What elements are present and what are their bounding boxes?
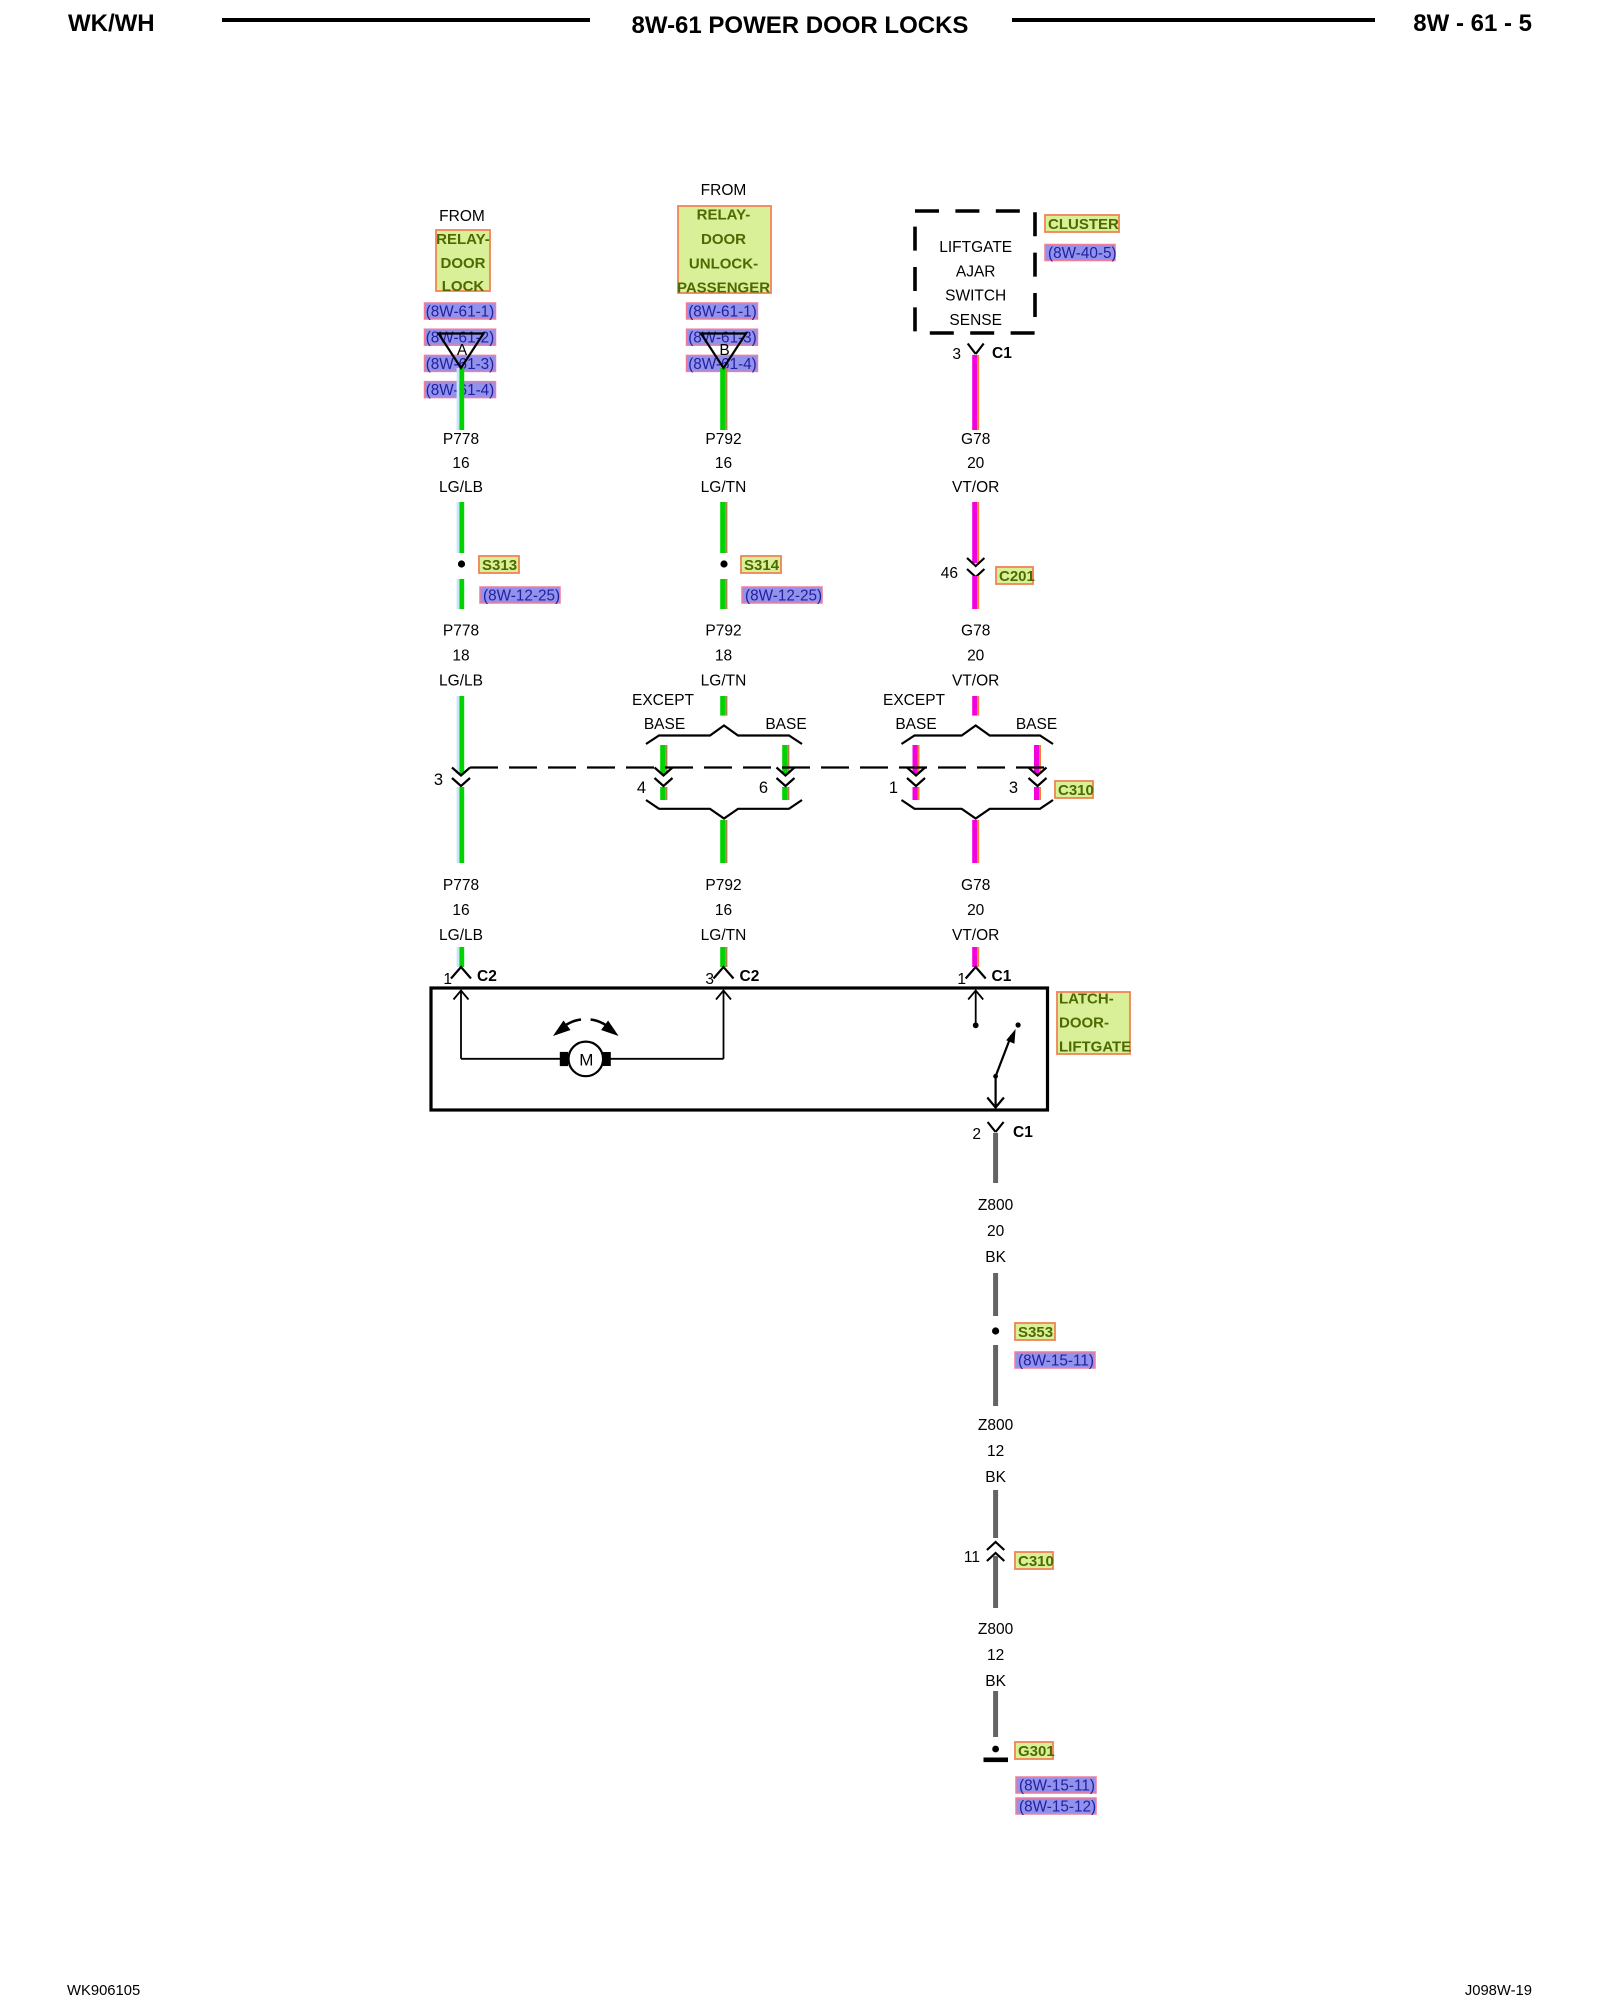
svg-text:46: 46	[941, 565, 958, 582]
svg-text:A: A	[457, 342, 468, 359]
svg-text:VT/OR: VT/OR	[952, 673, 999, 690]
svg-text:LG/TN: LG/TN	[701, 673, 747, 690]
svg-text:CLUSTER: CLUSTER	[1048, 216, 1119, 233]
svg-text:S353: S353	[1018, 1324, 1053, 1341]
svg-text:1: 1	[443, 971, 452, 988]
svg-text:EXCEPT: EXCEPT	[632, 692, 695, 709]
svg-text:M: M	[579, 1050, 593, 1069]
svg-text:C201: C201	[999, 568, 1035, 585]
svg-text:BASE: BASE	[765, 716, 806, 733]
svg-text:11: 11	[964, 1549, 980, 1566]
svg-text:20: 20	[987, 1223, 1005, 1240]
svg-text:LIFTGATE: LIFTGATE	[1059, 1039, 1131, 1056]
svg-text:LG/LB: LG/LB	[439, 673, 483, 690]
svg-text:B: B	[719, 342, 729, 359]
svg-text:(8W-15-11): (8W-15-11)	[1019, 1778, 1095, 1795]
svg-text:6: 6	[759, 779, 768, 797]
svg-text:16: 16	[452, 455, 469, 472]
svg-text:16: 16	[715, 455, 732, 472]
svg-text:16: 16	[715, 902, 732, 919]
svg-text:1: 1	[957, 971, 966, 988]
svg-text:LG/LB: LG/LB	[439, 479, 483, 496]
svg-text:Z800: Z800	[978, 1417, 1014, 1434]
svg-text:(8W-12-25): (8W-12-25)	[483, 588, 560, 605]
svg-text:C1: C1	[992, 968, 1012, 985]
svg-text:AJAR: AJAR	[956, 264, 996, 281]
svg-text:(8W-12-25): (8W-12-25)	[745, 588, 822, 605]
svg-text:S313: S313	[482, 557, 517, 574]
svg-text:C310: C310	[1058, 782, 1094, 799]
svg-text:LOCK: LOCK	[442, 278, 485, 295]
svg-text:Z800: Z800	[978, 1197, 1014, 1214]
svg-text:G78: G78	[961, 877, 990, 894]
svg-text:3: 3	[952, 346, 961, 363]
svg-text:8W-61 POWER DOOR LOCKS: 8W-61 POWER DOOR LOCKS	[632, 12, 969, 39]
svg-text:G78: G78	[961, 431, 990, 448]
svg-text:12: 12	[987, 1647, 1004, 1664]
svg-text:C1: C1	[992, 345, 1012, 362]
svg-text:P778: P778	[443, 877, 479, 894]
svg-text:18: 18	[715, 648, 732, 665]
svg-text:G78: G78	[961, 623, 990, 640]
svg-text:20: 20	[967, 902, 985, 919]
svg-text:EXCEPT: EXCEPT	[883, 692, 946, 709]
svg-text:2: 2	[972, 1126, 981, 1143]
svg-text:(8W-40-5): (8W-40-5)	[1048, 245, 1117, 262]
svg-text:P778: P778	[443, 431, 479, 448]
svg-text:VT/OR: VT/OR	[952, 479, 999, 496]
svg-text:16: 16	[452, 902, 469, 919]
svg-text:P778: P778	[443, 623, 479, 640]
svg-text:4: 4	[637, 779, 646, 797]
svg-text:J098W-19: J098W-19	[1465, 1983, 1532, 1999]
svg-text:LG/LB: LG/LB	[439, 927, 483, 944]
svg-text:VT/OR: VT/OR	[952, 927, 999, 944]
svg-text:G301: G301	[1018, 1743, 1055, 1760]
svg-text:RELAY-: RELAY-	[436, 231, 490, 248]
svg-text:(8W-15-11): (8W-15-11)	[1018, 1353, 1094, 1370]
svg-text:BASE: BASE	[644, 716, 685, 733]
svg-text:8W - 61 - 5: 8W - 61 - 5	[1413, 10, 1532, 37]
svg-text:BK: BK	[985, 1249, 1006, 1266]
svg-text:WK/WH: WK/WH	[68, 10, 155, 37]
svg-text:Z800: Z800	[978, 1621, 1014, 1638]
svg-text:(8W-61-1): (8W-61-1)	[426, 304, 495, 321]
svg-text:C2: C2	[740, 968, 760, 985]
svg-text:18: 18	[452, 648, 469, 665]
svg-text:FROM: FROM	[439, 208, 485, 225]
svg-text:RELAY-: RELAY-	[697, 207, 751, 224]
svg-text:DOOR: DOOR	[701, 231, 746, 248]
svg-text:PASSENGER: PASSENGER	[677, 280, 770, 297]
svg-text:LIFTGATE: LIFTGATE	[939, 239, 1012, 256]
svg-text:LATCH-: LATCH-	[1059, 991, 1114, 1008]
svg-text:20: 20	[967, 455, 985, 472]
svg-text:WK906105: WK906105	[67, 1983, 140, 1999]
svg-text:P792: P792	[705, 623, 741, 640]
svg-text:LG/TN: LG/TN	[701, 479, 747, 496]
svg-text:BK: BK	[985, 1469, 1006, 1486]
svg-text:P792: P792	[705, 877, 741, 894]
svg-text:C2: C2	[477, 968, 497, 985]
svg-text:1: 1	[889, 779, 898, 797]
svg-text:C310: C310	[1018, 1553, 1054, 1570]
svg-text:C1: C1	[1013, 1124, 1033, 1141]
svg-text:20: 20	[967, 648, 985, 665]
svg-text:BK: BK	[985, 1673, 1006, 1690]
svg-text:3: 3	[434, 771, 443, 789]
svg-text:3: 3	[705, 971, 714, 988]
svg-text:3: 3	[1009, 779, 1018, 797]
svg-text:BASE: BASE	[1016, 716, 1057, 733]
svg-text:(8W-61-1): (8W-61-1)	[688, 304, 757, 321]
svg-text:DOOR: DOOR	[441, 255, 486, 272]
svg-text:LG/TN: LG/TN	[701, 927, 747, 944]
svg-text:DOOR-: DOOR-	[1059, 1015, 1109, 1032]
svg-text:P792: P792	[705, 431, 741, 448]
svg-text:FROM: FROM	[701, 182, 747, 199]
svg-text:BASE: BASE	[895, 716, 936, 733]
svg-text:S314: S314	[744, 557, 780, 574]
svg-text:UNLOCK-: UNLOCK-	[689, 256, 758, 273]
svg-text:12: 12	[987, 1443, 1004, 1460]
svg-text:SENSE: SENSE	[949, 312, 1002, 329]
svg-text:(8W-15-12): (8W-15-12)	[1019, 1799, 1096, 1816]
svg-text:SWITCH: SWITCH	[945, 288, 1006, 305]
